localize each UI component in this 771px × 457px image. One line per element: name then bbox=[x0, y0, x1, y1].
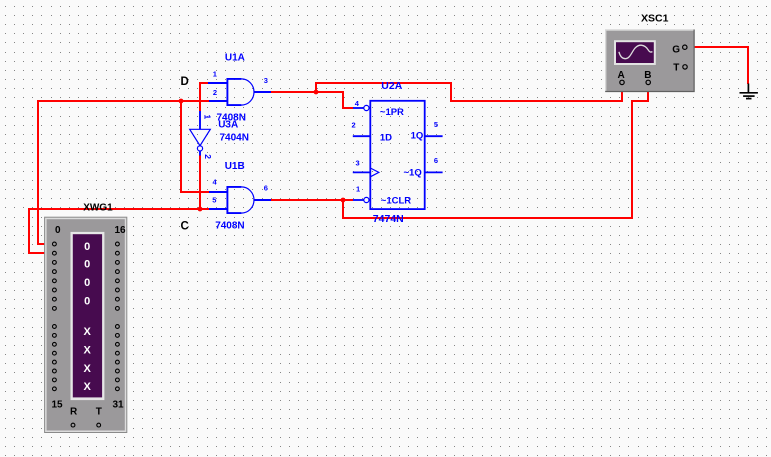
svg-text:1: 1 bbox=[356, 185, 360, 194]
svg-text:U2A: U2A bbox=[381, 80, 402, 92]
svg-text:6: 6 bbox=[434, 156, 438, 165]
svg-text:1: 1 bbox=[202, 115, 212, 120]
svg-text:6: 6 bbox=[264, 184, 268, 193]
svg-text:3: 3 bbox=[264, 76, 268, 85]
svg-text:G: G bbox=[672, 45, 680, 56]
svg-text:2: 2 bbox=[352, 121, 356, 130]
svg-text:XWG1: XWG1 bbox=[83, 203, 113, 214]
svg-text:T: T bbox=[673, 63, 679, 74]
svg-text:15: 15 bbox=[52, 400, 64, 411]
svg-text:3: 3 bbox=[356, 159, 360, 168]
svg-text:X: X bbox=[84, 345, 92, 357]
svg-text:R: R bbox=[70, 407, 78, 418]
svg-text:0: 0 bbox=[84, 258, 90, 270]
svg-text:7408N: 7408N bbox=[215, 221, 244, 232]
svg-text:2: 2 bbox=[203, 154, 213, 159]
svg-text:U1B: U1B bbox=[225, 161, 245, 172]
svg-text:16: 16 bbox=[115, 225, 127, 236]
svg-text:T: T bbox=[96, 407, 102, 418]
svg-text:0: 0 bbox=[55, 225, 61, 236]
svg-text:U1A: U1A bbox=[225, 53, 245, 64]
svg-text:C: C bbox=[181, 220, 189, 232]
svg-text:0: 0 bbox=[84, 241, 90, 253]
svg-text:~1PR: ~1PR bbox=[380, 107, 404, 118]
svg-text:X: X bbox=[84, 363, 92, 375]
svg-text:B: B bbox=[644, 70, 651, 81]
svg-text:0: 0 bbox=[84, 295, 90, 307]
svg-text:U3A: U3A bbox=[218, 119, 238, 130]
svg-text:7404N: 7404N bbox=[220, 133, 249, 144]
svg-text:XSC1: XSC1 bbox=[641, 12, 669, 24]
svg-text:5: 5 bbox=[434, 120, 438, 129]
svg-text:5: 5 bbox=[212, 196, 216, 205]
svg-text:1: 1 bbox=[213, 69, 217, 78]
svg-text:2: 2 bbox=[213, 88, 217, 97]
svg-text:A: A bbox=[618, 70, 625, 81]
svg-text:X: X bbox=[84, 381, 92, 393]
svg-text:7474N: 7474N bbox=[373, 213, 404, 225]
svg-text:31: 31 bbox=[113, 400, 125, 411]
svg-text:~1CLR: ~1CLR bbox=[381, 196, 411, 207]
svg-text:0: 0 bbox=[84, 277, 90, 289]
svg-text:X: X bbox=[84, 326, 92, 338]
svg-text:1Q: 1Q bbox=[411, 131, 424, 142]
svg-text:1D: 1D bbox=[380, 133, 392, 144]
svg-text:~1Q: ~1Q bbox=[404, 168, 422, 179]
svg-text:D: D bbox=[181, 76, 189, 88]
